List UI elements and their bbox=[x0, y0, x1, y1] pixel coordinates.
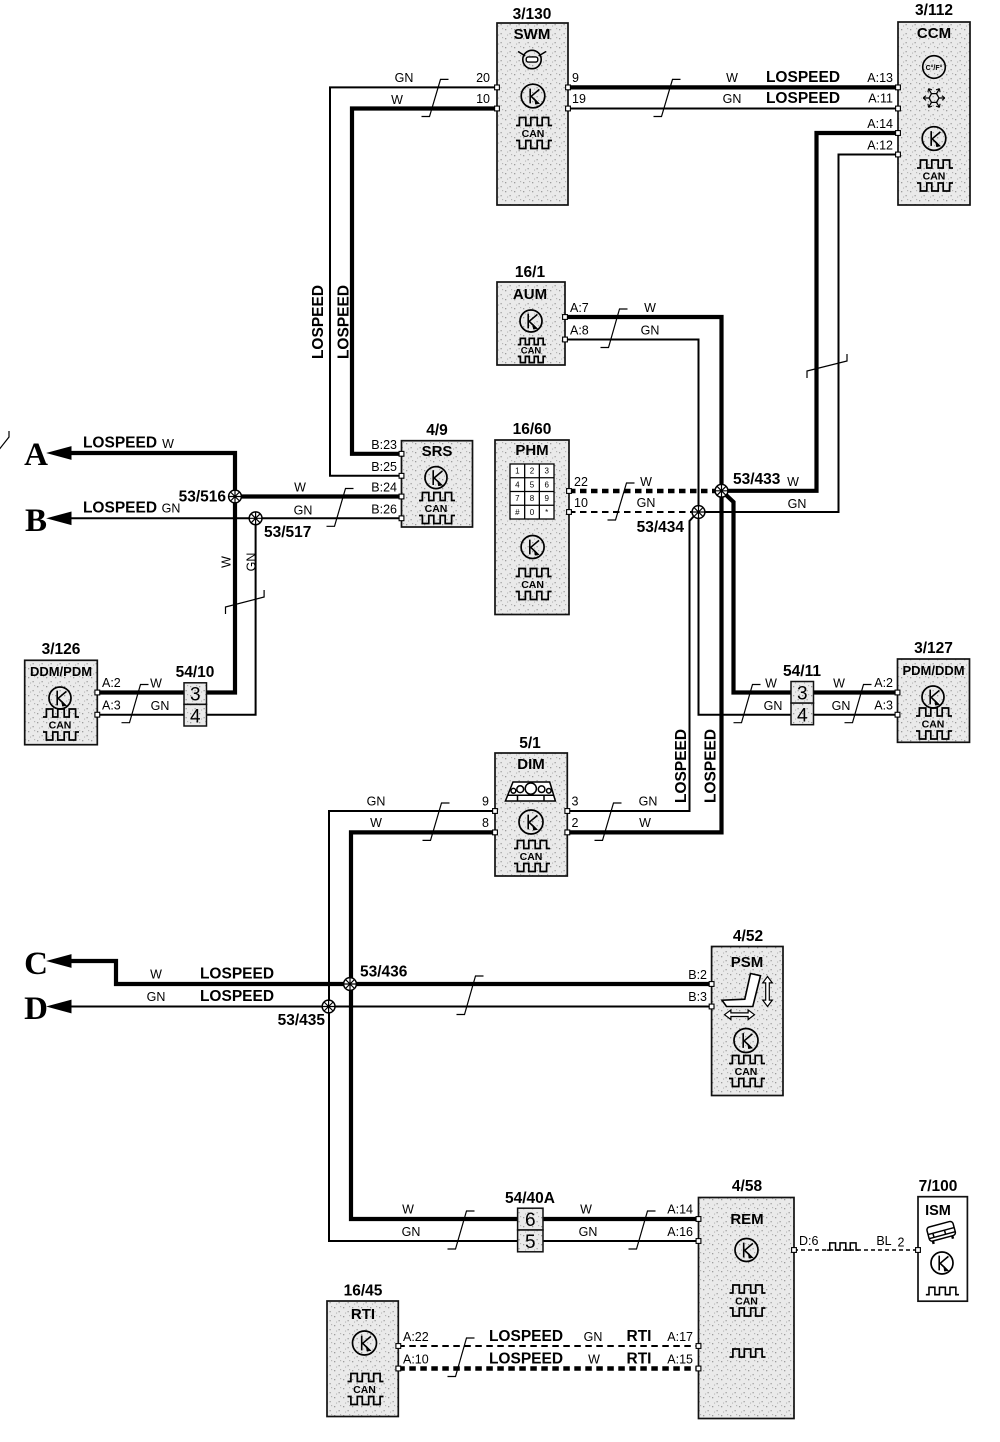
twisted-pair marker bbox=[423, 803, 450, 840]
svg-text:5: 5 bbox=[530, 480, 535, 489]
svg-text:PDM/DDM: PDM/DDM bbox=[902, 663, 964, 678]
svg-text:0: 0 bbox=[530, 508, 535, 517]
svg-text:GN: GN bbox=[639, 795, 658, 809]
svg-text:7/100: 7/100 bbox=[919, 1178, 958, 1195]
svg-text:GN: GN bbox=[641, 324, 660, 338]
svg-text:GN: GN bbox=[294, 504, 313, 518]
svg-text:5: 5 bbox=[525, 1232, 536, 1253]
svg-text:SRS: SRS bbox=[422, 443, 453, 460]
control module REM 4/58 bbox=[699, 1198, 795, 1419]
CAN symbol PSM bbox=[729, 1056, 765, 1064]
svg-text:3: 3 bbox=[572, 795, 579, 809]
svg-text:RTI: RTI bbox=[627, 1351, 652, 1368]
svg-text:B: B bbox=[25, 503, 47, 539]
svg-text:7: 7 bbox=[515, 494, 520, 503]
wire BL dashed REM D:6 to ISM:2 bbox=[794, 1249, 918, 1251]
svg-text:CCM: CCM bbox=[917, 25, 951, 42]
svg-text:W: W bbox=[726, 71, 738, 85]
svg-text:9: 9 bbox=[482, 795, 489, 809]
svg-text:3/130: 3/130 bbox=[513, 6, 552, 23]
K symbol REM bbox=[735, 1239, 758, 1262]
twisted-pair marker bbox=[608, 483, 635, 520]
control module DDM/PDM 3/126 bbox=[25, 660, 98, 744]
control module PDM/DDM 3/127 bbox=[898, 659, 970, 742]
svg-text:A:2: A:2 bbox=[874, 676, 893, 690]
K symbol DIM bbox=[519, 810, 543, 834]
instrument cluster icon bbox=[505, 782, 555, 801]
svg-text:10: 10 bbox=[476, 92, 490, 106]
K symbol SRS bbox=[425, 467, 447, 489]
K symbol SWM bbox=[521, 84, 545, 108]
svg-text:A:10: A:10 bbox=[403, 1353, 429, 1367]
svg-text:A:16: A:16 bbox=[667, 1225, 693, 1239]
svg-text:B:24: B:24 bbox=[371, 481, 397, 495]
svg-text:4/9: 4/9 bbox=[426, 422, 448, 439]
wire W LOSPEED arrow C to PSM B:2 bbox=[70, 961, 712, 984]
svg-text:W: W bbox=[294, 481, 306, 495]
svg-text:AUM: AUM bbox=[513, 286, 547, 303]
svg-text:CAN: CAN bbox=[923, 170, 946, 182]
K symbol 3/126 bbox=[49, 687, 71, 709]
twisted-pair marker bbox=[457, 976, 484, 1015]
K symbol ISM bbox=[931, 1252, 953, 1274]
svg-text:A:14: A:14 bbox=[867, 117, 893, 131]
svg-text:A:7: A:7 bbox=[570, 301, 589, 315]
svg-text:16/45: 16/45 bbox=[344, 1283, 383, 1300]
wire GN CCM A:12 to splice 53/434 bbox=[705, 155, 898, 513]
svg-text:C: C bbox=[24, 946, 48, 982]
wire GN splice 53/517 to SRS B:26 bbox=[262, 517, 402, 519]
svg-text:REM: REM bbox=[730, 1211, 763, 1228]
svg-text:CAN: CAN bbox=[522, 128, 545, 140]
svg-text:3: 3 bbox=[544, 467, 549, 476]
wire GN LOSPEED SWM:19 to CCM A:11 bbox=[568, 108, 898, 110]
control module PSM 4/52 bbox=[712, 947, 783, 1096]
svg-text:2: 2 bbox=[572, 816, 579, 830]
svg-text:4: 4 bbox=[515, 480, 520, 489]
svg-text:GN: GN bbox=[579, 1225, 598, 1239]
svg-text:*: * bbox=[545, 508, 548, 517]
svg-text:2: 2 bbox=[898, 1236, 905, 1250]
arrow C (LOSPEED W) bbox=[48, 955, 71, 967]
svg-text:W: W bbox=[765, 677, 777, 691]
wire W splice 53/433 to 54/11:3 bbox=[725, 494, 791, 693]
twisted-pair marker bbox=[845, 685, 872, 723]
wire W LOSPEED to arrow A from splice 53/516 bbox=[70, 453, 235, 490]
svg-text:4/52: 4/52 bbox=[733, 928, 763, 945]
svg-text:GN: GN bbox=[245, 553, 259, 572]
svg-text:PHM: PHM bbox=[515, 442, 548, 459]
connector 54/40A bbox=[518, 1208, 543, 1252]
K symbol PHM bbox=[521, 536, 544, 559]
twisted-pair marker bbox=[595, 803, 622, 840]
svg-text:B:2: B:2 bbox=[688, 968, 707, 982]
svg-text:53/434: 53/434 bbox=[637, 519, 685, 536]
svg-text:A: A bbox=[24, 437, 48, 473]
splice node 53/517 bbox=[249, 512, 262, 525]
svg-text:A:22: A:22 bbox=[403, 1330, 429, 1344]
wire GN AUM A:8 to splice 53/434 bbox=[565, 340, 699, 506]
svg-text:54/40A: 54/40A bbox=[505, 1190, 555, 1207]
svg-text:GN: GN bbox=[788, 497, 807, 511]
svg-text:GN: GN bbox=[151, 699, 170, 713]
control module ISM 7/100 bbox=[918, 1197, 967, 1302]
svg-text:DDM/PDM: DDM/PDM bbox=[30, 664, 92, 679]
wire W CCM A:14 to splice 53/433 bbox=[728, 133, 898, 491]
twisted-pair marker bbox=[734, 685, 761, 723]
svg-text:GN: GN bbox=[367, 795, 386, 809]
svg-text:2: 2 bbox=[530, 467, 535, 476]
svg-text:22: 22 bbox=[574, 475, 588, 489]
splice node 53/434 bbox=[692, 506, 705, 519]
svg-text:LOSPEED: LOSPEED bbox=[83, 500, 157, 517]
wire W DIM:8 down to 54/40A:6 bbox=[351, 832, 518, 1219]
svg-text:W: W bbox=[402, 1203, 414, 1217]
svg-text:A:11: A:11 bbox=[868, 92, 893, 106]
control module DIM 5/1 bbox=[495, 753, 567, 876]
CAN symbol DIM bbox=[514, 841, 550, 849]
CAN symbol 3/127 bbox=[916, 708, 952, 716]
K symbol CCM bbox=[922, 127, 946, 151]
wire W 3/126 A:2 to 54/10:3 bbox=[97, 690, 184, 694]
wire W dashed RTI A:10 to REM A:15 bbox=[398, 1366, 698, 1371]
control module PHM 16/60 bbox=[495, 440, 569, 615]
svg-text:A:13: A:13 bbox=[867, 71, 893, 85]
control module CCM 3/112 bbox=[898, 22, 970, 205]
svg-text:W: W bbox=[640, 475, 652, 489]
svg-text:SWM: SWM bbox=[514, 26, 551, 43]
svg-text:B:26: B:26 bbox=[371, 502, 397, 516]
svg-text:A:2: A:2 bbox=[102, 676, 121, 690]
CAN symbol RTI bbox=[348, 1374, 384, 1382]
wire GN splice 53/434 down to DIM:3 bbox=[567, 515, 695, 811]
keypad icon bbox=[510, 464, 554, 519]
svg-text:GN: GN bbox=[162, 502, 181, 516]
svg-text:CAN: CAN bbox=[521, 579, 544, 591]
wire W splice 53/516 to SRS B:24 bbox=[241, 494, 402, 498]
wire GN LOSPEED SWM:20 to SRS B:25 bbox=[330, 87, 497, 475]
wire W splice 53/516 down to 54/10:3 bbox=[207, 503, 236, 693]
twisted-pair marker bbox=[807, 354, 847, 378]
svg-text:CAN: CAN bbox=[49, 719, 72, 731]
K symbol PSM bbox=[734, 1029, 758, 1053]
svg-text:W: W bbox=[787, 475, 799, 489]
wire W 54/40A:6 to REM A:14 bbox=[543, 1217, 699, 1221]
control module SRS 4/9 bbox=[402, 441, 473, 527]
wire GN splice 53/434 to 54/11:4 bbox=[699, 518, 792, 715]
svg-text:LOSPEED: LOSPEED bbox=[766, 69, 840, 86]
square wave symbol REM bbox=[730, 1349, 766, 1357]
svg-text:6: 6 bbox=[544, 480, 549, 489]
vehicle icon ISM bbox=[926, 1221, 957, 1245]
svg-text:GN: GN bbox=[764, 699, 783, 713]
square wave symbol ISM bbox=[926, 1287, 959, 1294]
svg-text:A:14: A:14 bbox=[667, 1203, 693, 1217]
temperature C/F icon bbox=[923, 56, 946, 79]
svg-text:19: 19 bbox=[572, 92, 586, 106]
svg-text:6: 6 bbox=[525, 1210, 536, 1231]
wire GN 3/126 A:3 to 54/10:4 bbox=[97, 714, 184, 716]
twisted-pair marker bbox=[448, 1338, 475, 1377]
svg-text:GN: GN bbox=[723, 92, 742, 106]
svg-text:54/11: 54/11 bbox=[783, 663, 821, 680]
wire GN DIM:9 down to 54/40A:5 bbox=[329, 811, 518, 1241]
svg-text:CAN: CAN bbox=[520, 851, 543, 863]
steering wheel icon bbox=[518, 50, 546, 68]
svg-text:C°/F°: C°/F° bbox=[926, 64, 943, 72]
svg-text:BL: BL bbox=[876, 1234, 891, 1248]
svg-text:53/435: 53/435 bbox=[278, 1012, 326, 1029]
svg-text:CAN: CAN bbox=[735, 1066, 758, 1078]
svg-text:A:17: A:17 bbox=[667, 1330, 693, 1344]
connector 54/11 bbox=[791, 682, 814, 725]
svg-text:ISM: ISM bbox=[925, 1203, 951, 1219]
svg-text:CAN: CAN bbox=[425, 503, 448, 515]
wire W LOSPEED SWM:9 to CCM A:13 bbox=[568, 85, 898, 89]
svg-text:W: W bbox=[162, 437, 174, 451]
control module AUM 16/1 bbox=[497, 282, 565, 365]
svg-text:LOSPEED: LOSPEED bbox=[489, 1351, 563, 1368]
svg-text:GN: GN bbox=[395, 71, 414, 85]
svg-text:3/112: 3/112 bbox=[915, 2, 953, 19]
svg-text:16/1: 16/1 bbox=[515, 264, 546, 281]
svg-text:16/60: 16/60 bbox=[513, 421, 552, 438]
twisted-pair marker bbox=[327, 489, 354, 527]
control module SWM 3/130 bbox=[497, 23, 568, 205]
svg-text:LOSPEED: LOSPEED bbox=[200, 988, 274, 1005]
wire GN LOSPEED to arrow B from splice 53/517 bbox=[70, 517, 249, 519]
twisted-pair marker bbox=[226, 590, 265, 614]
svg-text:W: W bbox=[588, 1353, 600, 1367]
svg-text:53/436: 53/436 bbox=[360, 964, 408, 981]
svg-text:CAN: CAN bbox=[521, 345, 542, 356]
svg-text:LOSPEED: LOSPEED bbox=[489, 1328, 563, 1345]
svg-text:B:3: B:3 bbox=[688, 990, 707, 1004]
wire W dashed PHM:22 to splice 53/433 bbox=[569, 489, 715, 494]
svg-text:A:8: A:8 bbox=[570, 324, 589, 338]
wire GN LOSPEED arrow D to PSM B:3 bbox=[70, 1006, 712, 1008]
splice node 53/516 bbox=[229, 490, 242, 503]
svg-text:LOSPEED: LOSPEED bbox=[673, 729, 690, 803]
CAN symbol AUM bbox=[518, 338, 546, 344]
svg-text:8: 8 bbox=[482, 816, 489, 830]
svg-text:A:12: A:12 bbox=[867, 139, 893, 153]
svg-text:A:3: A:3 bbox=[874, 699, 893, 713]
svg-text:DIM: DIM bbox=[517, 756, 545, 773]
connector 54/10 bbox=[184, 683, 207, 726]
twisted-pair marker bbox=[601, 309, 628, 348]
svg-text:B:23: B:23 bbox=[371, 438, 397, 452]
svg-text:9: 9 bbox=[544, 494, 549, 503]
svg-text:W: W bbox=[833, 677, 845, 691]
CAN symbol SRS bbox=[419, 493, 455, 501]
svg-text:1: 1 bbox=[515, 467, 520, 476]
svg-text:W: W bbox=[644, 301, 656, 315]
svg-text:CAN: CAN bbox=[735, 1295, 758, 1307]
CAN symbol SWM bbox=[516, 118, 552, 126]
svg-text:CAN: CAN bbox=[922, 718, 945, 730]
svg-text:3/127: 3/127 bbox=[914, 640, 953, 657]
wire W LOSPEED SWM:10 to SRS B:23 bbox=[352, 109, 497, 454]
wire W 54/11:3 to 3/127 A:2 bbox=[814, 690, 898, 694]
svg-text:W: W bbox=[639, 816, 651, 830]
twisted-pair marker bbox=[654, 79, 681, 116]
svg-text:D:6: D:6 bbox=[799, 1234, 819, 1248]
svg-text:54/10: 54/10 bbox=[176, 664, 215, 681]
CAN symbol PHM bbox=[516, 569, 552, 577]
control module RTI 16/45 bbox=[327, 1301, 398, 1417]
twisted-pair marker bbox=[629, 1211, 656, 1249]
svg-text:GN: GN bbox=[147, 990, 166, 1004]
svg-text:RTI: RTI bbox=[351, 1306, 375, 1323]
wire GN splice 53/517 down to 54/10:4 bbox=[207, 524, 256, 715]
wire GN 54/11:4 to 3/127 A:3 bbox=[814, 714, 898, 716]
svg-text:GN: GN bbox=[402, 1225, 421, 1239]
svg-text:PSM: PSM bbox=[731, 954, 764, 971]
K symbol RTI bbox=[353, 1331, 377, 1355]
twisted-pair marker bbox=[448, 1211, 475, 1249]
CAN symbol CCM bbox=[917, 160, 953, 168]
CAN symbol REM bbox=[730, 1285, 766, 1293]
svg-text:D: D bbox=[24, 991, 48, 1027]
splice node 53/436 bbox=[344, 978, 357, 991]
svg-text:LOSPEED: LOSPEED bbox=[83, 435, 157, 452]
arrow A (LOSPEED W) bbox=[48, 447, 71, 459]
splice node 53/435 bbox=[322, 1000, 335, 1013]
svg-text:LOSPEED: LOSPEED bbox=[766, 90, 840, 107]
svg-text:20: 20 bbox=[476, 71, 490, 85]
svg-text:4/58: 4/58 bbox=[732, 1178, 763, 1195]
twisted-pair marker bbox=[122, 685, 149, 723]
svg-text:W: W bbox=[150, 677, 162, 691]
wire GN dashed PHM:10 to splice 53/434 bbox=[569, 511, 692, 513]
svg-text:W: W bbox=[370, 816, 382, 830]
svg-text:53/517: 53/517 bbox=[264, 524, 311, 541]
svg-text:W: W bbox=[150, 968, 162, 982]
svg-text:53/516: 53/516 bbox=[179, 489, 227, 506]
svg-text:LOSPEED: LOSPEED bbox=[703, 729, 720, 803]
svg-text:LOSPEED: LOSPEED bbox=[200, 966, 274, 983]
snowflake icon bbox=[923, 89, 945, 108]
svg-text:3/126: 3/126 bbox=[42, 641, 81, 658]
wire GN dashed RTI A:22 to REM A:17 bbox=[398, 1345, 698, 1347]
seat icon with adjustment arrows bbox=[722, 974, 761, 1007]
svg-text:GN: GN bbox=[637, 496, 656, 510]
svg-text:CAN: CAN bbox=[353, 1384, 376, 1396]
svg-text:3: 3 bbox=[190, 685, 201, 706]
arrow B (LOSPEED GN) bbox=[48, 512, 71, 524]
K symbol AUM bbox=[520, 310, 542, 332]
svg-text:LOSPEED: LOSPEED bbox=[310, 285, 327, 359]
partial twisted-pair marker at page edge bbox=[0, 431, 9, 451]
svg-text:LOSPEED: LOSPEED bbox=[336, 285, 353, 359]
svg-text:A:15: A:15 bbox=[667, 1353, 693, 1367]
svg-text:4: 4 bbox=[797, 705, 808, 726]
splice node 53/433 bbox=[715, 484, 728, 497]
svg-text:W: W bbox=[580, 1203, 592, 1217]
svg-text:A:3: A:3 bbox=[102, 699, 121, 713]
svg-text:8: 8 bbox=[530, 494, 535, 503]
svg-text:RTI: RTI bbox=[627, 1328, 652, 1345]
svg-text:B:25: B:25 bbox=[371, 460, 397, 474]
svg-text:5/1: 5/1 bbox=[519, 735, 541, 752]
svg-text:4: 4 bbox=[190, 707, 201, 728]
CAN symbol 3/126 bbox=[43, 709, 79, 717]
svg-text:#: # bbox=[515, 508, 520, 517]
wire W splice 53/433 down to DIM:2 bbox=[567, 497, 721, 832]
wire GN 54/40A:5 to REM A:16 bbox=[543, 1240, 699, 1242]
svg-text:9: 9 bbox=[572, 71, 579, 85]
svg-text:3: 3 bbox=[797, 683, 808, 704]
twisted-pair marker bbox=[422, 79, 449, 116]
square wave on REM-ISM wire bbox=[827, 1243, 859, 1250]
svg-text:53/433: 53/433 bbox=[733, 471, 781, 488]
svg-text:10: 10 bbox=[574, 496, 588, 510]
svg-text:GN: GN bbox=[832, 699, 851, 713]
svg-text:W: W bbox=[391, 93, 403, 107]
K symbol 3/127 bbox=[922, 686, 944, 708]
svg-text:W: W bbox=[220, 556, 234, 568]
arrow D (LOSPEED GN) bbox=[48, 1000, 71, 1012]
svg-text:GN: GN bbox=[584, 1330, 603, 1344]
wire W AUM A:7 to splice 53/433 bbox=[565, 317, 722, 484]
